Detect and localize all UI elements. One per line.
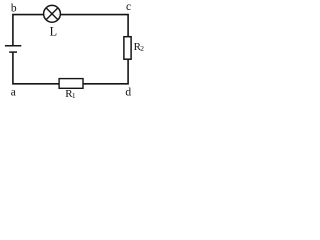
wire: lamp right to node c corner and down to resistor R2 top	[61, 15, 129, 37]
battery B1 long plate (positive terminal)	[5, 45, 21, 47]
wire: node b corner to lamp left (with left vertical down to battery top plate)	[13, 15, 44, 46]
svg-text:1: 1	[72, 91, 76, 100]
lamp L cross line 2	[46, 8, 58, 20]
battery B1 short plate (negative terminal)	[9, 51, 17, 53]
resistor R1 box	[59, 79, 83, 89]
resistor R2 box	[124, 37, 131, 60]
lamp L circle	[44, 5, 61, 22]
svg-text:L: L	[50, 25, 57, 39]
lamp L cross line 1	[46, 8, 58, 20]
svg-text:2: 2	[140, 44, 144, 53]
background	[0, 0, 152, 101]
wire: resistor R2 bottom down to node d corner and left to resistor R1 right	[83, 59, 128, 84]
svg-text:b: b	[11, 3, 17, 15]
svg-text:d: d	[125, 87, 131, 99]
svg-text:c: c	[126, 1, 131, 13]
wire: battery negative down to node a corner and right to resistor R1 left	[13, 53, 60, 84]
svg-text:a: a	[11, 86, 16, 98]
